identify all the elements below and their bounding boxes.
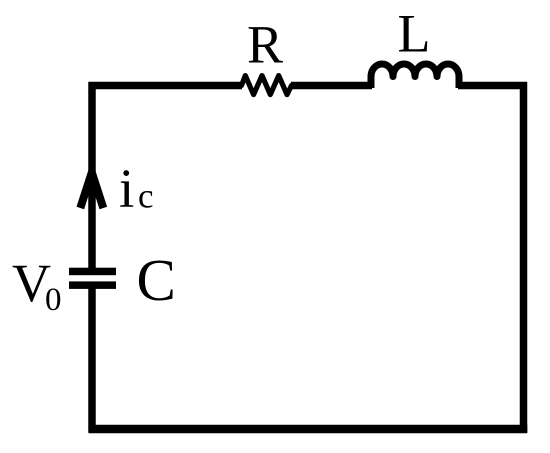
wire right side (520, 82, 528, 433)
svg-text:L: L (398, 4, 431, 64)
svg-text:i: i (119, 158, 134, 219)
inductor L (4 humps) (371, 64, 459, 88)
capacitor C bottom plate (69, 281, 116, 289)
wire top-right segment (458, 82, 527, 90)
svg-text:0: 0 (45, 282, 62, 318)
wire left upper (top corner to capacitor top plate) (88, 82, 96, 271)
resistor R (zigzag) (242, 76, 292, 95)
svg-text:C: C (137, 247, 176, 313)
wire top-middle segment (between R and L) (291, 82, 372, 90)
svg-text:R: R (247, 15, 283, 75)
wire left lower (capacitor bottom plate to bottom corner) (88, 285, 96, 433)
svg-text:c: c (138, 177, 154, 216)
capacitor C top plate (69, 268, 116, 276)
current arrow head (i_c, pointing up) (80, 173, 103, 209)
wire bottom side (89, 425, 528, 434)
wire top-left segment (89, 82, 243, 90)
